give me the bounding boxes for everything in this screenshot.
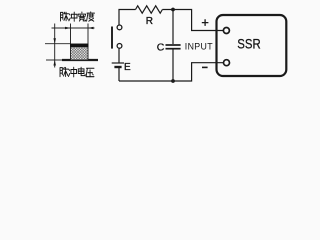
svg-text:R: R: [146, 16, 153, 27]
svg-text:SSR: SSR: [237, 36, 260, 52]
svg-text:INPUT: INPUT: [185, 42, 213, 52]
svg-text:C: C: [157, 41, 165, 53]
svg-text:E: E: [124, 62, 131, 73]
